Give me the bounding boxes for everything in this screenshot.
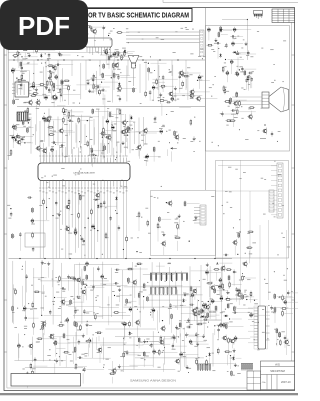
- wire: [176, 330, 178, 343]
- value label: [91, 77, 95, 80]
- wire: [68, 40, 74, 42]
- wire: [92, 26, 106, 28]
- capacitor C115: [92, 285, 94, 290]
- resistor R110: [32, 370, 34, 377]
- wire: [201, 98, 218, 100]
- capacitor C123: [189, 304, 194, 306]
- wire: [56, 85, 71, 87]
- connector CN302: [269, 190, 274, 212]
- wire: [88, 344, 90, 356]
- resistor R97: [206, 282, 213, 284]
- wire: [174, 91, 176, 101]
- wire: [61, 85, 63, 92]
- ground: [118, 364, 121, 368]
- wire: [235, 35, 243, 37]
- node: [96, 258, 97, 259]
- capacitor C3: [74, 227, 76, 232]
- value label: [124, 134, 127, 137]
- wire: [233, 99, 247, 101]
- wire: [239, 111, 256, 113]
- wire: [236, 308, 253, 310]
- transistor Q29: [106, 134, 111, 141]
- wire: [17, 57, 19, 63]
- wire: [122, 88, 137, 90]
- wire: [92, 158, 94, 167]
- node: [63, 59, 64, 60]
- node: [237, 254, 238, 255]
- wire: [39, 49, 56, 51]
- value label: [83, 283, 87, 286]
- capacitor C80: [67, 120, 72, 122]
- value label: [16, 123, 19, 126]
- capacitor C102: [49, 310, 51, 315]
- resistor R100: [242, 275, 244, 282]
- wire: [162, 81, 164, 93]
- node: [166, 202, 167, 203]
- resistor R72: [105, 232, 107, 239]
- inductor L23: [236, 92, 238, 98]
- value label: [12, 68, 16, 71]
- node: [103, 150, 104, 151]
- value label: [179, 87, 183, 90]
- inductor L21: [244, 70, 246, 76]
- capacitor C130: [222, 322, 225, 328]
- value label: [212, 311, 216, 314]
- frame zone ticks: [4, 55, 295, 352]
- capacitor C7: [56, 41, 58, 46]
- wire: [222, 19, 247, 21]
- inductor L15: [113, 72, 115, 78]
- diode D1: [10, 28, 15, 30]
- wire: [178, 219, 180, 229]
- capacitor C100: [115, 269, 120, 271]
- wire: [54, 363, 56, 374]
- wire: [249, 297, 251, 302]
- wire: [190, 292, 192, 304]
- value label: [271, 307, 274, 310]
- wire: [251, 111, 253, 116]
- wire: [147, 340, 160, 342]
- resistor R43: [145, 91, 147, 98]
- diode D10: [15, 137, 17, 142]
- wire: [194, 91, 210, 93]
- node: [85, 287, 86, 288]
- node: [111, 77, 112, 78]
- transistor Q54: [28, 343, 33, 350]
- capacitor C112: [97, 266, 99, 271]
- node: [97, 230, 98, 231]
- wire: [18, 349, 20, 358]
- resistor R123: [206, 359, 208, 366]
- transistor Q9: [116, 85, 121, 92]
- wire: [148, 73, 150, 81]
- value label: [223, 323, 225, 326]
- value label: [209, 311, 212, 314]
- capacitor C23: [215, 42, 220, 44]
- wire: [8, 26, 10, 160]
- resistor R15: [17, 50, 19, 57]
- value label: [212, 352, 214, 355]
- connector CN602: [197, 364, 211, 371]
- resistor R44: [159, 100, 166, 102]
- wire: [232, 344, 234, 348]
- wire: [218, 333, 220, 339]
- value label: [89, 324, 92, 327]
- transistor Q23: [42, 148, 47, 155]
- capacitor C143: [284, 299, 287, 305]
- wire: [66, 111, 83, 113]
- PDF badge: [0, 0, 88, 50]
- resistor R50: [224, 101, 231, 103]
- inductor L46: [143, 283, 145, 289]
- capacitor C62: [246, 76, 251, 78]
- wire: [161, 218, 171, 220]
- capacitor C121: [202, 309, 204, 314]
- wire: [236, 293, 238, 302]
- wire: [216, 190, 269, 192]
- wire: [228, 281, 230, 289]
- transistor Q13: [195, 95, 200, 102]
- value label: [79, 194, 82, 197]
- capacitor C122: [211, 298, 214, 304]
- wire: [119, 293, 121, 302]
- inductor L53: [215, 305, 217, 311]
- wire: [75, 328, 77, 341]
- value label: [35, 29, 38, 32]
- capacitor C48: [92, 77, 94, 82]
- resistor R38: [68, 85, 70, 92]
- wire: [138, 150, 140, 159]
- node: [87, 120, 88, 121]
- capacitor C54: [179, 74, 181, 79]
- value label: [252, 70, 254, 73]
- capacitor C16: [44, 43, 46, 48]
- wire: [54, 336, 65, 338]
- transistor Q42: [204, 304, 209, 311]
- diode D4: [124, 49, 126, 54]
- value label: [248, 83, 250, 86]
- value label: [236, 231, 238, 234]
- value label: [82, 243, 85, 246]
- resistor R24: [207, 44, 214, 46]
- inductor L40: [12, 306, 14, 312]
- value label: [122, 47, 126, 50]
- value label: [106, 236, 108, 239]
- value label: [65, 108, 68, 111]
- wire: [44, 154, 46, 161]
- wire: [244, 68, 256, 70]
- ground: [178, 214, 181, 218]
- resistor R118: [160, 336, 162, 343]
- wire: [126, 52, 133, 54]
- value label: [204, 303, 207, 306]
- value label: [235, 294, 239, 297]
- value label: [48, 91, 51, 94]
- capacitor C95: [83, 238, 85, 243]
- wire: [92, 90, 107, 92]
- capacitor C84: [106, 119, 109, 125]
- inductor L47: [138, 292, 140, 298]
- wire: [204, 310, 218, 312]
- ground: [82, 334, 85, 338]
- wire: [61, 278, 78, 280]
- wire: [82, 373, 84, 384]
- node: [250, 294, 251, 295]
- resistor R108: [109, 373, 116, 375]
- capacitor C52: [166, 101, 171, 103]
- value label: [13, 288, 16, 291]
- value label: [234, 306, 236, 309]
- transistor Q41: [76, 277, 81, 284]
- node: [219, 29, 220, 30]
- inductor L34: [79, 195, 81, 201]
- wire: [81, 119, 93, 121]
- resistor R4: [91, 208, 93, 215]
- inductor L48: [76, 322, 78, 328]
- resistor R94: [196, 323, 203, 325]
- value label: [188, 367, 191, 370]
- value label: [167, 201, 169, 204]
- value label: [53, 44, 57, 47]
- wire: [179, 80, 181, 93]
- capacitor C37: [11, 68, 14, 74]
- value label: [78, 118, 80, 121]
- resistor R64: [10, 149, 12, 156]
- connector CN301: [271, 163, 283, 218]
- transistor Q4: [91, 28, 96, 35]
- capacitor C133: [219, 277, 222, 283]
- value label: [157, 96, 161, 99]
- node: [44, 258, 45, 259]
- resistor R18: [65, 30, 72, 32]
- value label: [59, 35, 61, 38]
- value label: [228, 166, 231, 169]
- resistor R76: [177, 223, 179, 230]
- resistor R2: [68, 199, 70, 206]
- value label: [49, 80, 53, 83]
- resistor R73: [138, 211, 140, 218]
- value label: [247, 78, 249, 81]
- value label: [115, 48, 119, 51]
- value label: [281, 330, 285, 333]
- wire: [108, 61, 110, 69]
- inductor L69: [143, 351, 145, 357]
- wire: [35, 85, 45, 87]
- diode D18: [224, 315, 229, 317]
- value label: [82, 278, 85, 281]
- ground: [196, 342, 199, 346]
- value label: [57, 91, 61, 94]
- value label: [239, 292, 242, 295]
- wire grid: [13, 63, 222, 372]
- inductor L52: [201, 308, 203, 314]
- capacitor C126: [169, 303, 171, 308]
- wire: [41, 147, 47, 149]
- resistor R116: [224, 351, 231, 353]
- wire: [100, 205, 117, 207]
- wire: [36, 95, 51, 97]
- value label: [21, 36, 24, 39]
- inductor L42: [84, 265, 86, 271]
- value label: [195, 313, 198, 316]
- diode D16: [183, 298, 185, 303]
- transistor Q15: [233, 100, 238, 107]
- wire: [27, 113, 29, 123]
- inductor L57: [171, 313, 173, 319]
- wire: [123, 327, 125, 339]
- resistor R85: [15, 288, 17, 295]
- inductor L2: [28, 42, 30, 48]
- node: [68, 117, 69, 118]
- value label: [62, 41, 64, 44]
- wire: [239, 53, 257, 55]
- transistor Q24: [142, 127, 147, 134]
- diode D9: [118, 82, 120, 87]
- wire: [59, 93, 61, 102]
- value label: [29, 31, 32, 34]
- wire: [175, 345, 187, 347]
- node: [59, 35, 60, 36]
- value label: [219, 30, 221, 33]
- capacitor C36: [48, 76, 50, 81]
- wire: [112, 114, 124, 116]
- transistor Q5: [51, 94, 56, 101]
- capacitor C63: [251, 77, 253, 82]
- wire: [95, 110, 112, 112]
- wire: [284, 341, 286, 348]
- capacitor C13: [63, 40, 68, 42]
- ground: [58, 52, 61, 56]
- capacitor C148: [77, 357, 82, 359]
- value label: [52, 130, 56, 133]
- connector CN601: [241, 364, 253, 371]
- capacitor C134: [183, 294, 188, 296]
- diode D17: [200, 315, 205, 317]
- capacitor C97: [10, 212, 12, 217]
- node: [218, 325, 219, 326]
- capacitor C155: [150, 343, 152, 348]
- inductor L28: [91, 147, 93, 153]
- wire: [215, 311, 217, 320]
- wire: [78, 283, 80, 295]
- resistor R25: [47, 65, 54, 67]
- value label: [61, 79, 63, 82]
- wire: [47, 44, 56, 46]
- wire: [53, 34, 55, 41]
- node: [102, 137, 103, 138]
- inductor L36: [12, 233, 14, 239]
- wire: [88, 344, 90, 348]
- wire: [62, 37, 74, 39]
- diode D20: [129, 331, 131, 336]
- diode D12: [130, 115, 132, 120]
- resistor R48: [225, 120, 232, 122]
- resistor R10: [30, 27, 32, 34]
- wire: [163, 338, 174, 340]
- resistor R6: [126, 236, 128, 243]
- transistor Q36: [81, 289, 86, 296]
- node: [139, 132, 140, 133]
- inductor L73: [242, 294, 244, 300]
- inductor L67: [279, 332, 281, 338]
- inductor L60: [190, 286, 192, 292]
- wire: [205, 8, 207, 190]
- ground: [45, 86, 48, 90]
- wire: [116, 201, 118, 208]
- resistor R65: [68, 111, 70, 118]
- transistor Q46: [220, 265, 225, 272]
- title block: [261, 361, 295, 390]
- value label: [205, 304, 208, 307]
- value label: [193, 289, 196, 292]
- value label: [86, 312, 90, 315]
- wire: [236, 100, 262, 102]
- resistor R115: [228, 337, 230, 344]
- sub box filter: [25, 233, 45, 247]
- capacitor C31: [21, 65, 23, 70]
- capacitor C8: [44, 34, 47, 40]
- ground: [245, 42, 248, 46]
- wire: [86, 369, 104, 371]
- inductor L39: [70, 299, 72, 305]
- approval table: [247, 371, 261, 390]
- transistor Q17: [12, 124, 17, 131]
- node: [10, 208, 11, 209]
- capacitor C59: [248, 72, 253, 74]
- wire: [102, 137, 104, 151]
- capacitor C5: [103, 200, 105, 205]
- value label: [90, 147, 93, 150]
- wire: [105, 75, 113, 77]
- wire: [210, 314, 220, 316]
- wire: [194, 95, 203, 97]
- resistor R89: [94, 313, 96, 320]
- wire: [53, 70, 55, 75]
- inductor L24: [230, 97, 232, 103]
- wire: [92, 83, 94, 88]
- capacitor C74: [12, 135, 15, 141]
- wire: [93, 79, 95, 93]
- node: [16, 78, 17, 79]
- transistor Q49: [236, 291, 241, 298]
- wire: [24, 56, 38, 58]
- inductor L10: [220, 26, 222, 32]
- resistor R91: [225, 299, 232, 301]
- value label: [42, 45, 44, 48]
- value label: [90, 91, 93, 94]
- transistor Q32: [95, 192, 100, 199]
- wire: [26, 280, 28, 293]
- wire: [127, 138, 129, 149]
- resistor R120: [247, 231, 254, 233]
- wire: [193, 314, 195, 321]
- resistor R16: [22, 49, 29, 51]
- wire: [53, 100, 55, 107]
- resistor R114: [158, 349, 160, 356]
- diode D11: [126, 128, 128, 133]
- capacitor C83: [105, 136, 110, 138]
- wire: [188, 334, 198, 336]
- transistor Q26: [100, 130, 105, 137]
- capacitor C19: [90, 27, 92, 32]
- resistor R102: [279, 339, 281, 346]
- capacitor C106: [86, 261, 89, 267]
- wire: [286, 230, 288, 355]
- transistor Q12: [178, 70, 183, 77]
- value label: [133, 121, 135, 124]
- value label: [55, 31, 59, 34]
- resistor R11: [33, 37, 35, 44]
